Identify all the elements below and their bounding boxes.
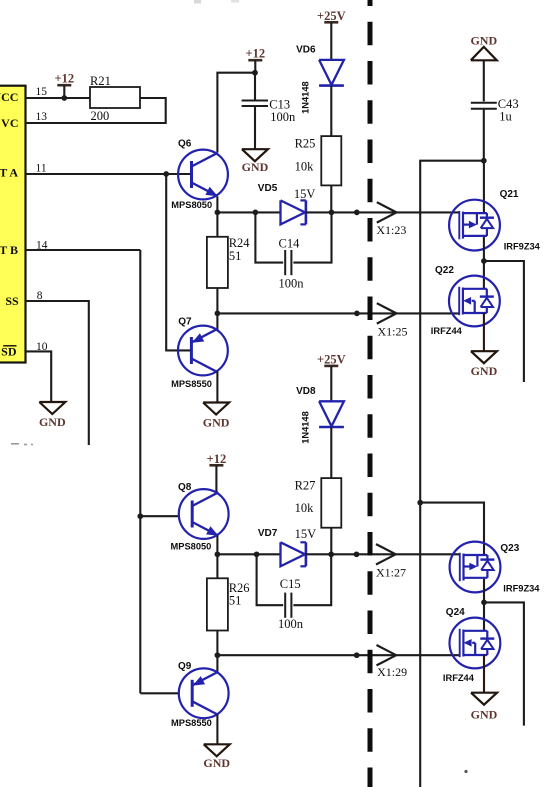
svg-text:10: 10 — [36, 341, 48, 353]
wire C43 to drain rail node — [483, 109, 485, 161]
resistor R24 — [207, 237, 228, 288]
pin 8 wire (SS) — [26, 301, 89, 445]
svg-text:8: 8 — [37, 290, 43, 302]
wire node to Q21 drain — [483, 161, 485, 213]
svg-text:VD6: VD6 — [296, 45, 316, 56]
wire Q22 source to ground — [483, 313, 485, 351]
node +12 junction on pin 15 — [61, 95, 67, 101]
wire gnd to C43 — [483, 60, 485, 101]
svg-text:GND: GND — [203, 756, 230, 770]
svg-text:GND: GND — [242, 160, 269, 174]
transistor Q9 — [179, 668, 229, 718]
stray marks (scan artifacts) — [11, 443, 19, 445]
wire node row to X1:29 and Q24 gate — [217, 654, 459, 656]
pin 14 wire (T B) — [26, 249, 141, 251]
svg-text:IRFZ44: IRFZ44 — [443, 673, 475, 683]
ground below Q7 — [203, 403, 229, 415]
svg-text:X1:25: X1:25 — [378, 325, 408, 339]
svg-text:51: 51 — [229, 249, 242, 263]
node terminal junction X1:25 — [354, 311, 360, 317]
wire VD7 cathode to X1:27 and Q23 gate — [306, 553, 460, 555]
wire Q24 source to ground — [483, 655, 485, 693]
svg-text:R25: R25 — [295, 136, 316, 150]
ground flag (top right) — [471, 47, 497, 61]
svg-text:+12: +12 — [245, 47, 265, 61]
terminal arrow X1:25 — [377, 303, 397, 313]
capacitor C14 loop (parallel with VD5) — [255, 212, 283, 262]
MOSFET Q23 IRF9Z34 — [450, 542, 501, 593]
node Q8 emitter row — [215, 551, 221, 557]
node Q23/Q24 junction — [481, 600, 487, 606]
svg-text:100n: 100n — [270, 110, 296, 124]
svg-text:GND: GND — [39, 415, 66, 429]
svg-text:VD5: VD5 — [258, 183, 278, 194]
resistor R21 — [90, 87, 140, 108]
node C15 tap — [254, 551, 260, 557]
svg-text:14: 14 — [36, 240, 48, 252]
zener diode VD5 15V — [281, 200, 306, 224]
wire VD8 to R27 — [330, 427, 332, 478]
IC U1 (yellow controller block, clipped at left edge) — [0, 86, 26, 363]
svg-text:100n: 100n — [278, 617, 304, 631]
terminal arrow X1:27 — [376, 544, 396, 554]
node R27/C15 junction — [328, 551, 334, 557]
svg-text:15: 15 — [36, 86, 48, 98]
svg-text:GND: GND — [203, 416, 230, 430]
svg-text:10k: 10k — [295, 501, 315, 515]
transistor Q7 — [178, 326, 228, 376]
zener diode VD7 15V — [281, 542, 306, 566]
svg-text:1u: 1u — [499, 109, 512, 123]
wire Q6 emitter to node row / resistor R24 top — [216, 197, 218, 237]
pin 10 wire (SD) — [26, 351, 52, 402]
diode VD8 1N4148 — [319, 401, 344, 426]
svg-text:GND: GND — [471, 364, 498, 378]
node R25/C14 junction — [329, 210, 335, 216]
wire Q9 to ground — [216, 715, 218, 745]
svg-text:VD8: VD8 — [296, 386, 316, 397]
svg-text:SS: SS — [5, 294, 19, 308]
wire VD5 cathode to X1:23 and Q21 gate — [306, 211, 459, 213]
svg-text:MPS8050: MPS8050 — [171, 542, 212, 552]
diode VD6 1N4148 — [319, 60, 344, 85]
svg-text:MPS8550: MPS8550 — [171, 379, 212, 389]
svg-text:X1:29: X1:29 — [377, 665, 407, 679]
node rail to Q23 — [417, 500, 423, 506]
pin 15 wire (VCC) — [26, 97, 91, 99]
svg-text:IRF9Z34: IRF9Z34 — [504, 241, 541, 251]
resistor R26 — [207, 578, 228, 630]
node C14 tap — [253, 210, 259, 216]
node drain rail — [481, 158, 487, 164]
drain rail: left + long vertical down — [420, 161, 484, 787]
svg-text:51: 51 — [229, 593, 242, 607]
transistor Q6 — [178, 150, 228, 200]
wire +12 to Q6 collector — [217, 73, 255, 153]
terminal arrow X1:23 — [377, 202, 397, 212]
wire R24 bottom to Q7 emitter node — [216, 288, 218, 330]
svg-text:11: 11 — [36, 163, 47, 175]
wire rail to Q23 drain — [420, 503, 484, 555]
capacitor C43 — [471, 102, 497, 104]
MOSFET Q22 IRFZ44 — [449, 276, 500, 327]
wire node row to X1:25 and Q22 gate — [217, 312, 458, 314]
ground below Q22 — [471, 351, 497, 363]
node terminal junction X1:29 — [354, 652, 360, 658]
wire R21 to pin 13 — [26, 98, 166, 123]
capacitor C13 — [254, 73, 256, 101]
wire to Q9 base — [140, 692, 179, 694]
faint specks (top edge scan artifacts) — [194, 0, 201, 4]
svg-text:R21: R21 — [90, 74, 111, 88]
svg-text:Q21: Q21 — [500, 189, 519, 200]
svg-text:X1:23: X1:23 — [376, 223, 406, 237]
wire VD6 to R25 — [330, 86, 332, 136]
ground below Q9 — [204, 744, 230, 756]
pin 11 wire (T A) to Q6 base — [26, 173, 192, 175]
svg-text:GND: GND — [471, 708, 498, 722]
terminal arrow X1:29 — [377, 645, 397, 655]
ground below pin 10 — [39, 402, 65, 414]
svg-text:C15: C15 — [280, 577, 301, 591]
svg-text:R27: R27 — [295, 478, 316, 492]
wire R25 bottom to node — [330, 185, 332, 212]
svg-text:R24: R24 — [229, 236, 251, 250]
node T B to Q8 base — [137, 513, 143, 519]
svg-text:Q22: Q22 — [435, 265, 454, 276]
wire R27 bottom to node — [330, 528, 332, 555]
svg-text:VC: VC — [1, 116, 18, 130]
capacitor C15 loop (parallel with VD7) — [257, 554, 284, 605]
stray speck (bottom right) — [464, 770, 467, 773]
wire Q21 source to mid node — [483, 237, 485, 289]
wire Q7 collector to ground — [216, 371, 218, 402]
wire T A node down to Q7 base — [166, 174, 191, 350]
svg-text:13: 13 — [36, 111, 48, 123]
svg-text:X1:27: X1:27 — [376, 565, 406, 579]
svg-text:200: 200 — [91, 109, 110, 123]
svg-text:Q6: Q6 — [178, 139, 192, 150]
wire T B down to Q8/Q9 bases — [139, 250, 141, 693]
svg-text:1N4148: 1N4148 — [300, 411, 310, 444]
svg-text:Q24: Q24 — [446, 607, 465, 618]
wire R26 bottom to Q9 node — [216, 631, 218, 672]
node Q6 emitter row — [215, 210, 221, 216]
wire Q23 source to mid node — [483, 579, 485, 631]
node row wire to VD7 — [217, 553, 281, 555]
svg-text:MPS8550: MPS8550 — [171, 718, 212, 728]
svg-text:IRFZ44: IRFZ44 — [431, 326, 463, 336]
stub to right (phase output) — [484, 261, 524, 382]
svg-text:Q23: Q23 — [500, 543, 519, 554]
node +12 rail — [252, 70, 258, 76]
svg-text:10k: 10k — [295, 160, 315, 174]
MOSFET Q21 IRF9Z34 — [449, 200, 500, 251]
svg-text:+25V: +25V — [317, 352, 346, 366]
svg-text:Q9: Q9 — [178, 661, 192, 672]
svg-text:C14: C14 — [279, 237, 301, 251]
node on T A wire — [163, 171, 169, 177]
stub to right (phase output) — [484, 602, 524, 725]
svg-text:T A: T A — [0, 166, 18, 180]
node terminal junction — [354, 210, 360, 216]
svg-text:MPS8050: MPS8050 — [171, 200, 212, 210]
node terminal junction — [354, 551, 360, 557]
resistor R25 — [321, 136, 341, 185]
wire C13 to ground — [254, 106, 256, 150]
svg-text:VCC: VCC — [0, 90, 18, 104]
dashed separator line — [368, 0, 373, 787]
svg-text:SD: SD — [1, 345, 17, 359]
transistor Q8 — [179, 489, 229, 539]
svg-text:+12: +12 — [54, 72, 74, 86]
svg-text:Q7: Q7 — [178, 317, 192, 328]
svg-text:+12: +12 — [207, 452, 227, 466]
svg-text:T B: T B — [0, 243, 18, 257]
svg-text:15V: 15V — [295, 527, 317, 541]
ground below Q24 — [471, 693, 497, 705]
node Q7 emitter / X1:25 row — [215, 311, 221, 317]
svg-text:IRF9Z34: IRF9Z34 — [503, 584, 540, 594]
svg-text:Q8: Q8 — [178, 482, 192, 493]
svg-text:1N4148: 1N4148 — [300, 81, 310, 114]
wire Q8 emitter to node row / R26 top — [216, 536, 218, 579]
node row wire to VD5 — [217, 211, 281, 213]
svg-text:100n: 100n — [279, 277, 305, 291]
svg-text:VD7: VD7 — [258, 528, 278, 539]
svg-text:+25V: +25V — [317, 9, 346, 23]
svg-text:15V: 15V — [294, 187, 316, 201]
MOSFET Q24 IRFZ44 — [450, 618, 501, 669]
svg-text:GND: GND — [470, 33, 497, 47]
node Q21/Q22 junction — [481, 258, 487, 264]
ground below C13 — [242, 149, 268, 161]
resistor R27 — [321, 478, 341, 528]
node Q9 collector / X1:29 row — [215, 652, 221, 658]
